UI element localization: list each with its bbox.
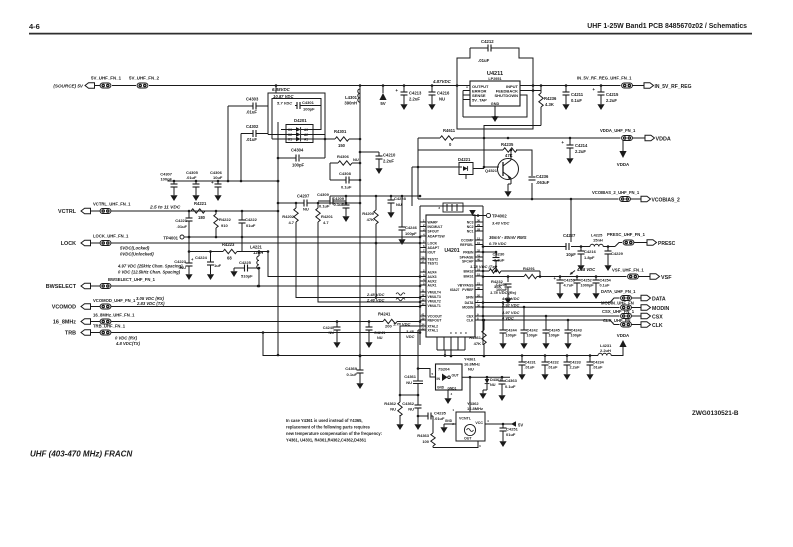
svg-text:1.8pF: 1.8pF: [584, 255, 595, 260]
svg-text:R4306: R4306: [337, 154, 350, 159]
svg-text:OUT: OUT: [452, 374, 460, 378]
svg-text:100pF: 100pF: [549, 334, 561, 338]
svg-text:R4291: R4291: [523, 266, 536, 271]
svg-text:0VDC(Unlocked): 0VDC(Unlocked): [120, 252, 154, 257]
svg-text:+: +: [561, 140, 564, 145]
ground C4231: [518, 371, 525, 380]
wire C4309 row: [318, 196, 346, 201]
wire IC box top: [420, 205, 483, 207]
wire XTAL2 net: [399, 326, 420, 402]
svg-text:C4224: C4224: [195, 255, 208, 260]
wire 5V rail right: [533, 84, 621, 87]
svg-text:new temperature compensation o: new temperature compensation of the freq…: [286, 431, 382, 436]
label 6.88VDC: [272, 87, 291, 92]
svg-text:100: 100: [422, 439, 429, 444]
svg-text:C4308: C4308: [339, 171, 352, 176]
svg-text:NU: NU: [303, 207, 309, 212]
wire Q4521 base: [484, 166, 499, 168]
label PVREF extra: [450, 288, 460, 292]
svg-text:NU: NU: [180, 265, 186, 270]
svg-text:30: 30: [477, 219, 481, 223]
capacitor C4216b: [578, 247, 597, 263]
svg-text:47K: 47K: [367, 217, 374, 222]
svg-text:4.87VDC: 4.87VDC: [432, 79, 452, 84]
wire TP4001 row: [184, 236, 421, 252]
node (SOURCE) 5V: [53, 83, 94, 89]
transistor Q4521: [485, 159, 519, 180]
wire bottom rail: [277, 350, 598, 357]
svg-text:VMULT1: VMULT1: [428, 304, 441, 308]
wire Q4521 collector: [510, 149, 513, 160]
connector VCOBIAS_2_UHF_FN_1: [592, 190, 640, 202]
wire VSF net: [482, 274, 627, 278]
svg-text:C4229: C4229: [611, 251, 624, 256]
resistor R4306: [337, 154, 359, 165]
pin labels U4211 right: [491, 84, 519, 106]
op-amp U4211: [470, 71, 520, 106]
svg-text:12uH: 12uH: [253, 250, 263, 255]
svg-text:+: +: [211, 180, 214, 185]
capacitor C4243: [565, 320, 583, 340]
resistor R4362: [384, 401, 402, 421]
svg-text:+: +: [592, 87, 595, 92]
svg-text:.01uF: .01uF: [177, 224, 188, 229]
ground C4245: [542, 340, 549, 349]
connector CSX_UHF_FN_1: [602, 309, 635, 318]
svg-text:.01uF: .01uF: [548, 366, 559, 370]
ground osc: [440, 424, 447, 433]
svg-text:100pF: 100pF: [506, 334, 518, 338]
ground C4241: [365, 339, 372, 348]
capacitor C4210: [360, 152, 396, 165]
svg-text:CLK: CLK: [652, 323, 663, 329]
capacitor C4244: [500, 303, 518, 341]
wire xtal link: [400, 394, 419, 397]
svg-text:DATA: DATA: [652, 297, 666, 303]
svg-text:VDDA: VDDA: [656, 137, 671, 143]
label 2.5 to 11 VDC: [149, 205, 181, 211]
node VCTRL: [58, 202, 131, 216]
svg-text:36mV - 80mV RMS: 36mV - 80mV RMS: [489, 235, 527, 240]
svg-text:910: 910: [221, 223, 228, 228]
svg-text:13: 13: [421, 298, 425, 302]
label 4.97 VDC data: [501, 296, 519, 301]
wire filter row3: [188, 250, 268, 253]
svg-text:K3: K3: [288, 128, 292, 132]
capacitor C4245: [543, 316, 561, 340]
wire rail to box: [275, 86, 277, 94]
svg-text:VBYPASS: VBYPASS: [458, 284, 475, 288]
wire osc out pin: [433, 441, 478, 448]
svg-text:12: 12: [477, 237, 481, 241]
svg-text:16_8MHz_UHF_FN_1: 16_8MHz_UHF_FN_1: [93, 313, 135, 318]
svg-text:C4216: C4216: [584, 249, 597, 254]
pins U4201 right: [458, 219, 483, 323]
capacitor C4252: [574, 277, 595, 291]
power flag 5V: [379, 86, 386, 107]
svg-text:C4302: C4302: [246, 124, 259, 129]
wire U4211 input stub: [520, 85, 533, 87]
svg-text:5V_UHF_FN_2: 5V_UHF_FN_2: [129, 76, 160, 81]
capacitor C4301: [297, 100, 315, 112]
label 5.7 VDC: [277, 101, 292, 106]
svg-text:4.8 VDC(TX): 4.8 VDC(TX): [115, 341, 141, 346]
svg-text:.063uF: .063uF: [536, 180, 550, 185]
svg-text:R4361: R4361: [469, 335, 482, 340]
wire L4231 to VDDA: [611, 347, 623, 356]
svg-text:28: 28: [477, 228, 481, 232]
svg-text:0.1uF: 0.1uF: [600, 284, 611, 288]
wire U4211 shutdown: [494, 95, 527, 118]
svg-text:AUX1: AUX1: [428, 284, 437, 288]
resistor R4236: [539, 86, 557, 126]
ground C4305: [192, 192, 199, 201]
svg-text:SFOUT: SFOUT: [428, 230, 440, 234]
svg-text:100pF: 100pF: [303, 107, 315, 112]
wire PRESC net: [482, 245, 610, 248]
svg-text:TEST1: TEST1: [428, 262, 439, 266]
wire TRB net: [115, 331, 421, 355]
svg-text:C4362: C4362: [402, 401, 415, 406]
svg-text:replacement of the following p: replacement of the following parts requi…: [286, 425, 371, 430]
test point TP4002: [486, 213, 509, 225]
wire center bus: [359, 86, 362, 358]
svg-text:C4301: C4301: [302, 100, 315, 105]
svg-text:3.43 VDC: 3.43 VDC: [492, 221, 509, 226]
svg-text:C4231: C4231: [525, 361, 536, 365]
ground C4209: [342, 213, 349, 222]
wire U4211 gnd stub: [494, 106, 496, 113]
svg-text:C4210: C4210: [383, 153, 396, 158]
ground R4362: [396, 421, 403, 430]
svg-text:OUT: OUT: [464, 437, 472, 441]
svg-text:XTAL1: XTAL1: [428, 329, 439, 333]
svg-text:V: V: [459, 332, 463, 334]
svg-text:C4209: C4209: [332, 196, 345, 201]
capacitor C4309: [317, 192, 333, 209]
svg-text:BIAS2: BIAS2: [464, 270, 474, 274]
resistor R4241: [378, 312, 421, 329]
power flag VDDA up: [617, 333, 630, 347]
svg-text:5V_TAP: 5V_TAP: [472, 98, 487, 103]
svg-text:2.2uF: 2.2uF: [383, 159, 394, 164]
ground C4223: [185, 271, 192, 280]
svg-text:0 VDC (RX): 0 VDC (RX): [115, 336, 138, 341]
svg-text:MODIN: MODIN: [462, 306, 474, 310]
svg-text:0 VDC (12.5kHz Chan. Spacing): 0 VDC (12.5kHz Chan. Spacing): [118, 270, 181, 275]
capacitor C4363: [499, 377, 518, 392]
ground C4243: [564, 340, 571, 349]
svg-text:32: 32: [477, 249, 481, 253]
svg-text:AUX4: AUX4: [428, 271, 437, 275]
svg-text:In case Y4361 is used instead: In case Y4361 is used instead of Y4365,: [286, 418, 363, 423]
wire PREIN stub: [482, 251, 498, 254]
ground C4251: [499, 438, 506, 447]
capacitor C4302: [246, 124, 259, 142]
resistor R4202: [282, 203, 421, 299]
capacitor C4222: [239, 211, 258, 237]
capacitor C4213: [395, 86, 422, 102]
capacitor C4361: [404, 374, 423, 395]
node CSX: [632, 313, 664, 320]
capacitor C4305: [186, 170, 200, 192]
svg-text:5VDC(Locked): 5VDC(Locked): [120, 246, 150, 251]
svg-text:NU: NU: [396, 202, 402, 207]
node BWSELECT: [46, 277, 156, 290]
ground C4246: [398, 236, 405, 245]
svg-text:C4242: C4242: [527, 329, 538, 333]
svg-text:GND: GND: [491, 102, 500, 106]
svg-text:35: 35: [477, 286, 481, 290]
svg-text:5: 5: [432, 372, 434, 376]
resistor R4363: [417, 433, 435, 448]
pin 1 U4211: [457, 85, 470, 89]
svg-text:47K: 47K: [474, 341, 481, 346]
inductor L4225: [590, 233, 622, 247]
svg-text:BWSELECT_UHF_FN_1: BWSELECT_UHF_FN_1: [108, 277, 156, 282]
wire CSX net: [482, 315, 620, 318]
svg-text:LOCK: LOCK: [61, 241, 76, 247]
svg-text:WARP: WARP: [428, 221, 439, 225]
svg-text:4.7uF: 4.7uF: [564, 284, 575, 288]
svg-text:01uF: 01uF: [506, 432, 516, 437]
wire LOCK net: [115, 242, 421, 245]
svg-text:NU: NU: [353, 157, 359, 162]
label RMS: [489, 235, 527, 240]
capacitor C4303: [246, 97, 259, 115]
svg-text:R4363: R4363: [417, 433, 430, 438]
node VCOMOD: [52, 298, 136, 311]
resistor R4201: [316, 203, 422, 303]
wire VCTRL net: [115, 210, 279, 213]
svg-text:33: 33: [421, 327, 425, 331]
label 4.97 VDC csx: [501, 310, 519, 315]
svg-text:.01uF: .01uF: [246, 110, 257, 115]
svg-text:510pF: 510pF: [241, 274, 253, 279]
wire AUX net: [267, 250, 422, 278]
svg-text:C4244: C4244: [506, 329, 518, 333]
capacitor C4241: [366, 320, 386, 340]
label 4.58 VDC: [570, 267, 596, 275]
label 0 VDC clk: [502, 315, 514, 320]
ground C4216: [428, 101, 435, 110]
resistor R4301: [334, 129, 361, 148]
svg-text:C4254: C4254: [600, 279, 612, 283]
svg-text:C4213: C4213: [409, 91, 422, 96]
node DATA: [632, 295, 666, 302]
svg-text:20: 20: [477, 294, 481, 298]
svg-text:0.1uF: 0.1uF: [505, 384, 516, 389]
svg-text:R4301: R4301: [334, 129, 347, 134]
capacitor C4235: [428, 411, 447, 434]
svg-text:12: 12: [421, 293, 425, 297]
ground C4369: [356, 380, 363, 389]
diode D4201 K3-A3: [281, 127, 321, 132]
svg-text:C4251: C4251: [506, 427, 519, 432]
wire D4221 feed: [412, 167, 462, 206]
svg-text:.01uF: .01uF: [246, 137, 257, 142]
svg-text:GND: GND: [437, 386, 445, 390]
capacitor C4234: [587, 356, 605, 372]
svg-text:0.1uF: 0.1uF: [571, 98, 582, 103]
wire osc gnd pin: [444, 419, 456, 424]
svg-text:TP4001: TP4001: [163, 236, 178, 241]
svg-text:C4225: C4225: [239, 260, 252, 265]
svg-text:C4361: C4361: [404, 374, 417, 379]
svg-text:40: 40: [477, 258, 481, 262]
label 10.87 VDC: [273, 94, 294, 99]
svg-text:VCOMOD: VCOMOD: [52, 305, 76, 311]
svg-text:R4201: R4201: [321, 214, 334, 219]
svg-text:C4223: C4223: [174, 259, 187, 264]
inductor L4231: [598, 343, 612, 356]
svg-text:VSF: VSF: [661, 275, 672, 281]
capacitor C4214: [561, 138, 588, 155]
wire Q4521 box: [418, 150, 532, 199]
svg-text:L4221: L4221: [250, 245, 263, 250]
capacitor C4240: [323, 320, 341, 339]
svg-text:C4236: C4236: [536, 174, 549, 179]
diode D4221: [458, 157, 484, 179]
wire Y4361 feed: [417, 330, 436, 381]
resistor R4222: [214, 211, 232, 237]
svg-text:4: 4: [487, 419, 489, 423]
svg-text:C4233: C4233: [570, 361, 581, 365]
ground C4307: [170, 192, 177, 201]
svg-text:16_8MHz: 16_8MHz: [53, 320, 76, 326]
svg-text:VCOBIAS_2_UHF_FN_1: VCOBIAS_2_UHF_FN_1: [592, 190, 640, 195]
svg-text:NU: NU: [406, 380, 412, 385]
svg-text:1: 1: [452, 408, 454, 412]
page number: [29, 22, 40, 31]
svg-text:C4216: C4216: [437, 91, 450, 96]
svg-text:4.58 VDC: 4.58 VDC: [576, 267, 596, 272]
svg-text:C4212: C4212: [481, 39, 494, 44]
svg-text:0: 0: [449, 142, 452, 147]
svg-text:PRESC: PRESC: [658, 241, 676, 247]
svg-text:TRB: TRB: [65, 331, 76, 337]
svg-text:63A27: 63A27: [450, 288, 460, 292]
svg-text:PRESC_UHF_FN_1: PRESC_UHF_FN_1: [607, 232, 646, 237]
label XTAL voltages: [393, 322, 415, 340]
svg-text:IN: IN: [437, 377, 441, 381]
svg-text:+: +: [395, 88, 398, 93]
svg-text:4.97 VDC (25kHz Chan. Spacing): 4.97 VDC (25kHz Chan. Spacing): [117, 264, 183, 269]
svg-text:LOCK: LOCK: [428, 242, 438, 246]
svg-text:C4243: C4243: [571, 329, 582, 333]
ground C4252: [573, 290, 580, 299]
svg-text:5V: 5V: [380, 101, 385, 106]
ground C4242: [520, 340, 527, 349]
svg-text:R4235: R4235: [501, 142, 514, 147]
svg-text:0.79 VDC: 0.79 VDC: [489, 241, 506, 246]
svg-text:DATA: DATA: [465, 301, 474, 305]
capacitor C4232: [542, 356, 559, 372]
node VDDA out: [633, 135, 671, 142]
svg-text:200: 200: [385, 324, 392, 329]
svg-text:VCTRL_UHF_FN_1: VCTRL_UHF_FN_1: [93, 202, 131, 207]
ground C4216b: [577, 262, 584, 271]
ground C4228: [387, 209, 394, 218]
svg-text:01uF: 01uF: [246, 223, 256, 228]
connector CLK_UHF_FN_1: [603, 318, 631, 327]
inductor L4301: [344, 89, 360, 106]
svg-text:V: V: [464, 332, 468, 334]
svg-text:100pF: 100pF: [527, 334, 539, 338]
capacitor C4246: [399, 196, 418, 236]
svg-text:D4221: D4221: [458, 157, 471, 162]
svg-text:VMULT4: VMULT4: [428, 291, 441, 295]
pin labels U4211 left: [472, 84, 489, 103]
svg-text:100pF: 100pF: [292, 163, 305, 168]
capacitor C4256: [496, 275, 512, 295]
ground C4234: [586, 371, 593, 380]
svg-text:5.7 VDC: 5.7 VDC: [277, 101, 292, 106]
test point TP4001: [163, 235, 184, 241]
ground C4244: [499, 340, 506, 349]
diode array D4201: [286, 118, 313, 143]
node IN_5V_RF_REG: [633, 83, 692, 90]
capacitor C4251: [500, 424, 519, 438]
ground C4210: [375, 165, 382, 174]
ic U4201 box: [426, 215, 475, 337]
svg-text:CCOMP: CCOMP: [461, 239, 474, 243]
svg-text:3: 3: [438, 206, 440, 210]
capacitor C4307: [160, 172, 177, 193]
svg-text:IOUT: IOUT: [428, 251, 437, 255]
svg-text:.01uF: .01uF: [478, 58, 490, 63]
svg-text:VDDA: VDDA: [617, 162, 630, 167]
svg-text:BIAS1: BIAS1: [464, 275, 474, 279]
svg-text:V: V: [449, 332, 453, 334]
svg-text:DATA_UHF_FN_1: DATA_UHF_FN_1: [601, 289, 636, 294]
capacitor C4230: [493, 252, 506, 273]
svg-text:NU: NU: [377, 336, 383, 340]
svg-text:30: 30: [477, 304, 481, 308]
svg-text:R4221: R4221: [194, 201, 207, 206]
svg-text:4.7: 4.7: [288, 220, 294, 225]
svg-text:C4369: C4369: [345, 366, 358, 371]
svg-text:0.1uF: 0.1uF: [341, 185, 352, 190]
node TRB: [65, 324, 126, 337]
svg-text:C4214: C4214: [575, 143, 588, 148]
power flag 5V osc: [511, 421, 523, 427]
node VCOBIAS_2: [631, 196, 681, 203]
svg-text:VDDA: VDDA: [617, 333, 630, 338]
svg-text:NC3: NC3: [467, 221, 474, 225]
svg-text:K2: K2: [288, 133, 292, 137]
svg-text:2.2uH: 2.2uH: [600, 348, 611, 353]
svg-text:37: 37: [421, 260, 425, 264]
node VSF: [639, 274, 673, 281]
svg-text:C4235: C4235: [434, 411, 447, 416]
capacitor C4225: [238, 260, 260, 279]
svg-text:R4236: R4236: [544, 96, 557, 101]
wire DATA net: [482, 298, 620, 304]
svg-text:R4222: R4222: [219, 217, 232, 222]
connector 5V_UHF_FN_2: [129, 76, 160, 89]
crystal Y4361: [464, 357, 480, 372]
ground C4215: [597, 101, 604, 110]
svg-text:CSX: CSX: [652, 315, 663, 321]
capacitor C4233: [564, 356, 581, 372]
svg-text:10pF: 10pF: [566, 252, 576, 257]
svg-text:IN_5V_RF_REG: IN_5V_RF_REG: [655, 84, 692, 90]
svg-text:100pF: 100pF: [405, 231, 417, 236]
ground C4213: [400, 101, 407, 110]
wire VCOBIAS_2: [417, 150, 619, 200]
svg-text:C4245: C4245: [549, 329, 560, 333]
